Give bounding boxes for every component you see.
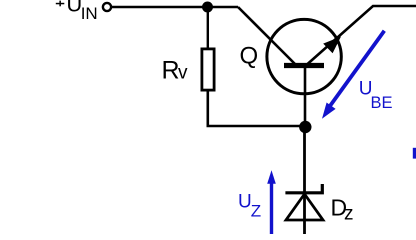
- svg-text:U: U: [238, 192, 252, 213]
- svg-text:BE: BE: [371, 94, 393, 112]
- svg-text:R: R: [162, 56, 180, 84]
- svg-text:IN: IN: [81, 4, 98, 23]
- svg-text:Q: Q: [240, 43, 259, 70]
- svg-text:z: z: [344, 204, 354, 225]
- svg-text:Z: Z: [251, 201, 261, 220]
- svg-text:v: v: [178, 62, 188, 83]
